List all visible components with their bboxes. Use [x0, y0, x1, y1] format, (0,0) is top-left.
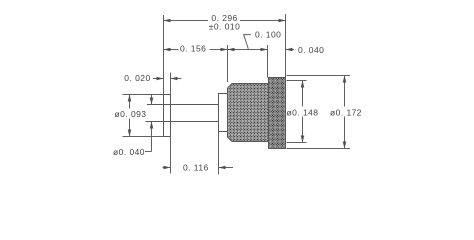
svg-text:±0. 010: ±0. 010 — [209, 22, 240, 32]
svg-text:0. 156: 0. 156 — [180, 43, 206, 53]
svg-text:ø0. 040: ø0. 040 — [113, 147, 145, 157]
svg-text:0. 116: 0. 116 — [183, 163, 209, 173]
svg-text:ø0. 172: ø0. 172 — [330, 108, 362, 118]
svg-text:ø0. 093: ø0. 093 — [115, 109, 147, 119]
svg-text:0. 020: 0. 020 — [124, 73, 150, 83]
svg-text:ø0. 148: ø0. 148 — [287, 108, 319, 118]
svg-text:0. 100: 0. 100 — [255, 30, 281, 40]
svg-text:0. 040: 0. 040 — [298, 45, 324, 55]
